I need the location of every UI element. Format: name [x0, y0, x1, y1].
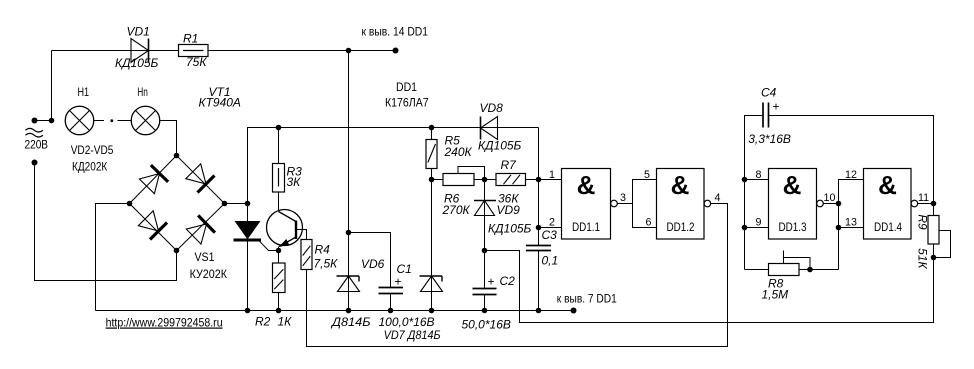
- label H1: [78, 85, 90, 99]
- node rail C3: [536, 308, 542, 314]
- capacitor C2: [473, 251, 497, 311]
- label 220V: [25, 138, 49, 152]
- wire VD1 to R1: [149, 50, 179, 52]
- label C1: [397, 262, 412, 276]
- svg-text:КУ202К: КУ202К: [190, 267, 227, 281]
- label 3,3*16V: [748, 132, 791, 146]
- svg-text:13: 13: [845, 217, 857, 229]
- label R5: [445, 134, 461, 148]
- wire bridge left to ground rail: [96, 204, 130, 311]
- svg-text:С3: С3: [542, 228, 558, 242]
- node pin2/C3: [536, 225, 542, 231]
- node pin 9: [742, 225, 748, 231]
- wire bridge edge bottom-left: [130, 204, 177, 251]
- pin 13 label: [845, 217, 857, 229]
- label KD105B for VD1: [115, 56, 159, 70]
- node junction top rail: [346, 48, 352, 54]
- svg-text:к выв. 7 DD1: к выв. 7 DD1: [557, 292, 617, 306]
- bridge diode bottom-left: [138, 211, 167, 240]
- wire pin 1 stub: [539, 179, 562, 181]
- node junction at lamp feed: [49, 118, 55, 124]
- svg-text:R1: R1: [183, 32, 198, 46]
- label R8: [768, 277, 784, 291]
- capacitor C3: [526, 246, 551, 311]
- pin 5 label: [644, 169, 650, 181]
- node R3 top: [276, 125, 282, 131]
- svg-text:http://www.299792458.ru: http://www.299792458.ru: [106, 316, 223, 330]
- label VD6: [361, 257, 385, 271]
- terminal 220V top: [32, 118, 52, 124]
- label 1K: [278, 315, 293, 329]
- label C2: [500, 274, 516, 288]
- bridge diode top-right: [186, 164, 215, 193]
- wire R6 to R7: [474, 179, 496, 181]
- node pin 8: [742, 177, 748, 183]
- label plus C1: [395, 275, 402, 289]
- label 100,0*16V: [379, 315, 435, 329]
- pin 2 label: [549, 217, 555, 229]
- terminal to pin 7 DD1: [571, 308, 577, 314]
- svg-text:+: +: [395, 275, 402, 289]
- resistor R8: [745, 264, 839, 276]
- wire dash-dot between lamps: [94, 119, 131, 122]
- wire supply run to R9: [485, 251, 934, 323]
- resistor R5: [426, 128, 437, 180]
- wire vertical to top rail: [51, 51, 53, 121]
- capacitor C4: [745, 103, 934, 270]
- node rail C1: [388, 308, 394, 314]
- node emitter/gate: [276, 248, 282, 254]
- wire pin 2 stub: [539, 227, 562, 229]
- node C2 top: [482, 248, 488, 254]
- svg-text:0,1: 0,1: [542, 254, 559, 268]
- node VD9 top: [482, 177, 488, 183]
- wire from bottom terminal to bridge bottom: [35, 163, 177, 281]
- label KD105B for VD8: [478, 139, 522, 153]
- diode VD9: [474, 180, 496, 251]
- AC ~ symbol: [26, 128, 43, 137]
- svg-text:R7: R7: [501, 158, 518, 172]
- wire bridge right to thyristor anode: [225, 203, 248, 205]
- label VD7 D814B: [384, 328, 441, 342]
- svg-text:&: &: [671, 170, 690, 200]
- svg-text:DD1.4: DD1.4: [874, 220, 902, 234]
- wire R3 to collector: [278, 192, 280, 212]
- svg-text:10: 10: [824, 192, 836, 204]
- resistor R2: [273, 251, 286, 311]
- svg-text:1,5М: 1,5М: [762, 288, 789, 302]
- svg-text:Д814Б: Д814Б: [330, 315, 371, 329]
- svg-text:VD7 Д814Б: VD7 Д814Б: [384, 328, 441, 342]
- label R6: [444, 192, 460, 206]
- wire to C1: [349, 233, 391, 288]
- svg-text:+: +: [773, 100, 780, 114]
- svg-text:КД105Б: КД105Б: [478, 139, 522, 153]
- gate DD1.3: [769, 169, 824, 240]
- svg-text:240К: 240К: [444, 145, 473, 159]
- node output 10: [836, 201, 842, 207]
- label Hn: [137, 85, 148, 99]
- label D814B for VD6: [330, 315, 371, 329]
- label DD1: [396, 80, 417, 94]
- pin 11 label: [918, 192, 929, 204]
- svg-text:8: 8: [756, 169, 762, 181]
- node rail VD7: [429, 308, 435, 314]
- svg-text:К176ЛА7: К176ЛА7: [385, 95, 429, 109]
- node bridge right: [222, 201, 228, 207]
- node R9 bottom: [931, 255, 937, 261]
- wire R1 to pin14 terminal: [208, 50, 396, 52]
- wire VD8 down to pin1 node: [538, 128, 540, 246]
- pin 6 label: [646, 217, 652, 229]
- node bridge bottom: [174, 248, 180, 254]
- capacitor C1: [379, 288, 404, 311]
- label VS1: [195, 250, 215, 264]
- svg-text:DD1.2: DD1.2: [667, 220, 695, 234]
- label C3: [542, 228, 558, 242]
- wire R5 bottom to R6: [432, 179, 444, 181]
- svg-text:75К: 75К: [186, 55, 207, 69]
- gate DD1.2: [657, 169, 711, 240]
- node VD6/C1 junction: [346, 230, 352, 236]
- svg-text:к выв. 14 DD1: к выв. 14 DD1: [362, 25, 429, 39]
- wire tie 5-6: [633, 180, 657, 228]
- pin 8 label: [756, 169, 762, 181]
- svg-text:270К: 270К: [442, 203, 471, 217]
- resistor R1: [179, 45, 209, 57]
- pin 1 label: [549, 169, 555, 181]
- label R9 rotated: [916, 214, 930, 230]
- label VD9: [497, 203, 521, 217]
- node rail R2: [276, 308, 282, 314]
- label VT1: [209, 85, 231, 99]
- label KD105B for VD9: [488, 222, 532, 236]
- gate DD1.1: [562, 169, 618, 240]
- terminal 220V bottom: [32, 160, 38, 166]
- gate DD1.4: [864, 169, 918, 240]
- svg-text:12: 12: [845, 169, 857, 181]
- label k vyv 14 DD1: [362, 25, 429, 39]
- wire pin 8 stub: [745, 179, 769, 181]
- site url: [106, 316, 223, 330]
- svg-text:КТ940А: КТ940А: [199, 96, 241, 110]
- svg-text:11: 11: [918, 192, 929, 204]
- svg-text:DD1.1: DD1.1: [572, 220, 600, 234]
- svg-text:9: 9: [756, 217, 762, 229]
- svg-text:КД202К: КД202К: [72, 160, 107, 174]
- wire lamp Hn to bridge top: [160, 121, 177, 156]
- wire pin14 feed down: [348, 51, 350, 311]
- node rail thyristor: [245, 308, 251, 314]
- pin 12 label: [845, 169, 857, 181]
- label R4: [315, 243, 331, 257]
- node output 11: [931, 201, 937, 207]
- label plus C4: [773, 100, 780, 114]
- R9 wiper tap: [934, 231, 951, 258]
- node bridge left: [127, 201, 133, 207]
- svg-text:1К: 1К: [278, 315, 293, 329]
- wire output 10: [823, 203, 838, 205]
- label plus C2: [488, 275, 495, 289]
- svg-text:3К: 3К: [287, 175, 302, 189]
- svg-text:С4: С4: [761, 86, 777, 100]
- diode VD1: [131, 39, 149, 63]
- label R7: [501, 158, 518, 172]
- svg-text:51К: 51К: [916, 248, 930, 269]
- svg-text:VD9: VD9: [497, 203, 521, 217]
- svg-text:2: 2: [549, 217, 555, 229]
- svg-text:&: &: [577, 170, 596, 200]
- pin 4 label: [715, 192, 721, 204]
- svg-text:R2: R2: [255, 315, 271, 329]
- label 50,0*16V: [462, 318, 511, 332]
- label 270K: [442, 203, 471, 217]
- svg-text:КД105Б: КД105Б: [488, 222, 532, 236]
- svg-text:VD2-VD5: VD2-VD5: [71, 143, 114, 157]
- label 51K rotated: [916, 248, 930, 269]
- label C4: [761, 86, 777, 100]
- lamp Hn: [131, 106, 160, 135]
- wire bridge edge top-right: [177, 156, 225, 204]
- zener VD6: [337, 276, 360, 292]
- R6 wiper tap: [458, 167, 485, 180]
- label VD1: [127, 25, 150, 39]
- resistor R9: [928, 204, 939, 258]
- label 1,5M: [762, 288, 789, 302]
- diode VD8: [481, 117, 539, 140]
- bridge diode bottom-right: [186, 215, 215, 244]
- wire ground rail: [96, 310, 574, 312]
- node pin1/R7: [536, 177, 542, 183]
- svg-text:DD1.3: DD1.3: [779, 220, 807, 234]
- label k vyv 7 DD1: [557, 292, 617, 306]
- node R5 bottom: [429, 177, 435, 183]
- svg-text:VS1: VS1: [195, 250, 215, 264]
- wire pin 9 stub: [745, 227, 769, 229]
- svg-text:DD1: DD1: [396, 80, 417, 94]
- svg-text:5: 5: [644, 169, 650, 181]
- svg-text:1: 1: [549, 169, 555, 181]
- label R2: [255, 315, 271, 329]
- svg-text:6: 6: [646, 217, 652, 229]
- resistor R4: [301, 240, 312, 270]
- node pin 13: [836, 225, 842, 231]
- svg-text:+: +: [488, 275, 495, 289]
- svg-text:Hn: Hn: [137, 85, 148, 99]
- wire top rail left: [52, 50, 132, 52]
- label KD202K: [72, 160, 107, 174]
- svg-text:R9: R9: [916, 214, 930, 230]
- node R5 top: [429, 125, 435, 131]
- pin 3 label: [620, 192, 626, 204]
- lamp H1: [65, 106, 94, 135]
- resistor R3: [273, 128, 285, 193]
- transistor VT1: [267, 210, 307, 247]
- wire bridge edge top-left: [130, 156, 177, 204]
- resistor R6: [443, 174, 474, 186]
- svg-text:VD6: VD6: [361, 257, 385, 271]
- wire tie 12-13: [839, 180, 864, 270]
- label VD2-VD5: [71, 143, 114, 157]
- node bridge top: [174, 153, 180, 159]
- node rail VD6: [346, 308, 352, 314]
- label 3K: [287, 175, 302, 189]
- thyristor gate wire: [260, 241, 279, 250]
- label R3: [287, 165, 303, 179]
- resistor R7: [496, 174, 526, 186]
- svg-text:С2: С2: [500, 274, 516, 288]
- zener VD7: [420, 180, 443, 311]
- label 240K: [444, 145, 473, 159]
- node rail C2: [482, 308, 488, 314]
- wire bridge edge bottom-right: [177, 204, 225, 251]
- label R1: [183, 32, 198, 46]
- thyristor VS1: [234, 204, 262, 311]
- label 36K: [498, 192, 519, 206]
- label 75K: [186, 55, 207, 69]
- label KU202K: [190, 267, 227, 281]
- label KT940A: [199, 96, 241, 110]
- svg-text:&: &: [783, 170, 802, 200]
- pin 9 label: [756, 217, 762, 229]
- node thyristor anode: [245, 201, 251, 207]
- svg-text:КД105Б: КД105Б: [115, 56, 159, 70]
- bridge diode top-left: [139, 165, 168, 194]
- svg-text:7,5К: 7,5К: [314, 257, 339, 271]
- label K176LA7: [385, 95, 429, 109]
- svg-text:VD1: VD1: [127, 25, 150, 39]
- pin 10 label: [824, 192, 836, 204]
- svg-text:H1: H1: [78, 85, 90, 99]
- node R8 tap: [807, 267, 813, 273]
- svg-text:100,0*16В: 100,0*16В: [379, 315, 435, 329]
- svg-text:220В: 220В: [25, 138, 49, 152]
- svg-text:50,0*16В: 50,0*16В: [462, 318, 511, 332]
- terminal to pin 14 DD1: [393, 48, 399, 54]
- wire R4 bottom feedback run: [307, 204, 728, 347]
- wire emitter down: [278, 247, 280, 251]
- label VD8: [480, 101, 504, 115]
- wire R7 to node pin1: [526, 179, 539, 181]
- svg-text:VD8: VD8: [480, 101, 504, 115]
- svg-text:R4: R4: [315, 243, 331, 257]
- wire output 11: [918, 203, 934, 205]
- svg-text:&: &: [878, 170, 897, 200]
- label 0,1: [542, 254, 559, 268]
- wire output 3: [617, 203, 632, 205]
- R8 wiper tap: [784, 251, 811, 270]
- svg-text:4: 4: [715, 192, 721, 204]
- wire plus rail riser: [248, 128, 481, 204]
- svg-text:3: 3: [620, 192, 626, 204]
- svg-text:3,3*16В: 3,3*16В: [748, 132, 791, 146]
- label 7,5K: [314, 257, 339, 271]
